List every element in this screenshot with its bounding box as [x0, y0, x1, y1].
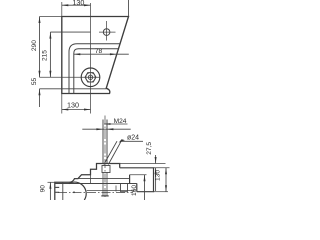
part outline top view [62, 17, 129, 94]
dim 215 [49, 32, 51, 77]
big concentric circle (fastener) [81, 68, 100, 87]
dim 130 right [165, 168, 167, 192]
stud [102, 120, 104, 164]
o24 underline leader [121, 140, 143, 142]
dim 55 [39, 89, 41, 107]
stud centerline [104, 116, 106, 199]
dim 160 [144, 175, 146, 200]
nut box [102, 166, 110, 173]
svg-text:55: 55 [31, 78, 38, 86]
body right edge [129, 175, 131, 184]
svg-text:130: 130 [67, 101, 79, 110]
interior step edge y=178.6 [75, 178, 130, 180]
dim 78 leader [74, 53, 129, 55]
stud hole hidden lines [102, 173, 104, 196]
dim 27.5 [155, 155, 157, 164]
dome center dot [73, 191, 75, 193]
small circle top right [103, 29, 110, 36]
svg-text:215: 215 [42, 50, 49, 61]
interior step outer contour (fillet arc) [69, 44, 120, 94]
svg-text:290: 290 [31, 40, 38, 51]
svg-text:27,5: 27,5 [146, 142, 153, 155]
svg-text:160: 160 [131, 185, 138, 196]
leader slants [104, 141, 117, 164]
svg-text:130: 130 [72, 0, 84, 7]
dim 290 [39, 17, 41, 78]
dim 130 bottom [62, 109, 91, 111]
interior vertical x=90.5 continuation [90, 175, 92, 184]
ext line above part top right corner [128, 0, 130, 17]
interior horizontal y=190.4 [87, 189, 135, 191]
hole bottom [101, 195, 108, 197]
interior step inner contour [74, 49, 119, 94]
svg-text:90: 90 [40, 185, 47, 193]
body outline left cap [55, 164, 120, 201]
dome end side view [69, 182, 86, 200]
interior horizontal edge y=88.8 [40, 88, 107, 90]
horizontal centerline y=77.3 [40, 76, 100, 78]
svg-text:130: 130 [155, 170, 162, 181]
M24 label [104, 123, 128, 125]
svg-text:ø24: ø24 [127, 135, 139, 142]
centerline horizontal [58, 192, 133, 194]
interior horizontal edge y=32.1 [50, 31, 90, 33]
cap tick marks [55, 186, 59, 188]
svg-text:M24: M24 [114, 118, 127, 125]
dim 130 top [62, 4, 91, 6]
svg-text:78: 78 [95, 48, 103, 55]
pipe right [120, 168, 154, 192]
interior horizontal y=183.5 [55, 183, 137, 185]
ext y=191.7 right [154, 191, 169, 193]
ext y=163.5 right [120, 163, 166, 165]
cross mark x=116 [115, 186, 117, 192]
ext y=167.8 right [153, 167, 169, 169]
unlabeled dim line y=129.2 [82, 128, 130, 130]
vertical centerline x=90.5 [90, 3, 92, 114]
cap inner vertical [62, 182, 64, 200]
right pocket [120, 184, 122, 192]
dim 90 [49, 182, 51, 200]
